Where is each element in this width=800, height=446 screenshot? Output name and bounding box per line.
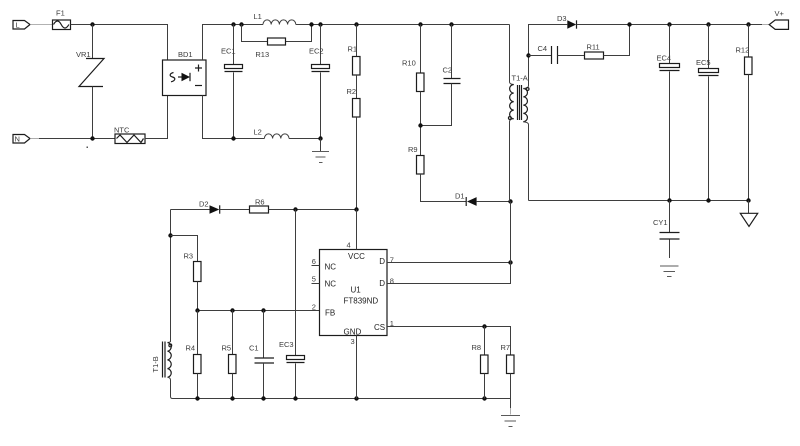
resistor R1 (348, 25, 361, 76)
svg-text:GND: GND (344, 328, 362, 337)
junction CS R8 (482, 324, 486, 328)
junction EC1 bottom (231, 136, 235, 140)
svg-text:VCC: VCC (348, 252, 365, 261)
pin 2 FB (312, 303, 316, 312)
wire R11 to out rail (604, 25, 630, 56)
resistor R12 (736, 25, 753, 201)
wire NTC to BD1 bottom (145, 96, 168, 139)
svg-text:R2: R2 (347, 87, 357, 96)
transformer T1-A (508, 25, 529, 202)
svg-text:BD1: BD1 (178, 50, 193, 59)
svg-text:NTC: NTC (114, 126, 130, 135)
resistor R3 (184, 252, 202, 282)
junction R9 top (418, 123, 422, 127)
capacitor EC3 (279, 210, 305, 399)
svg-text:L: L (16, 21, 20, 30)
junction snubber right (627, 22, 631, 26)
ground controller (501, 416, 520, 427)
svg-text:7: 7 (390, 256, 394, 265)
varistor VR1 (76, 25, 104, 139)
svg-text:N: N (15, 135, 20, 144)
junction CY1 top (667, 198, 671, 202)
svg-text:R13: R13 (255, 50, 269, 59)
svg-text:EC2: EC2 (309, 47, 324, 56)
resistor R6 (250, 198, 269, 214)
junction rail R5 (230, 396, 234, 400)
svg-text:R11: R11 (587, 43, 600, 52)
junction EC5 top (706, 22, 710, 26)
wire BD1 minus rail (203, 96, 265, 139)
junction R12 top (746, 22, 750, 26)
wire out rail (577, 24, 763, 26)
junction FB R4 (195, 308, 199, 312)
svg-text:4: 4 (347, 241, 351, 250)
wire branch to R3 (171, 236, 198, 262)
wire L1 right along top rail (296, 24, 510, 26)
junction EC1 top (231, 22, 235, 26)
junction R13 left (239, 22, 243, 26)
wire R6 to VCC pin (269, 209, 357, 211)
capacitor C2 (421, 25, 461, 126)
diode D1 (455, 192, 511, 207)
junction R10 top (418, 22, 422, 26)
wire N to NTC (39, 138, 115, 140)
svg-text:R5: R5 (222, 344, 232, 353)
pin 1 CS wire (387, 319, 511, 355)
svg-text:6: 6 (312, 257, 316, 266)
wire R10 to R9 (420, 92, 422, 156)
thermistor NTC (114, 126, 145, 144)
resistor R7 (501, 343, 515, 415)
svg-text:C4: C4 (538, 44, 548, 53)
capacitor EC2 (309, 25, 330, 139)
wire out ground rail (529, 200, 749, 202)
junction VR1 bottom (90, 136, 94, 140)
svg-text:C1: C1 (249, 344, 259, 353)
svg-text:FT839ND: FT839ND (344, 297, 379, 306)
wire N lead (30, 138, 39, 140)
junction FB C1 (261, 308, 265, 312)
junction R12 bottom (746, 198, 750, 202)
svg-text:R1: R1 (348, 45, 358, 54)
svg-text:R7: R7 (501, 343, 511, 352)
svg-text:EC5: EC5 (696, 58, 711, 67)
capacitor C4 (529, 44, 558, 64)
svg-text:D3: D3 (557, 14, 567, 23)
svg-text:T1-B: T1-B (151, 356, 160, 372)
junction D1 drain node (508, 199, 512, 203)
svg-text:CS: CS (374, 323, 385, 332)
svg-text:V+: V+ (775, 9, 785, 18)
pin 8 D wire (387, 263, 511, 286)
svg-text:R4: R4 (186, 344, 196, 353)
wire FB line (198, 310, 320, 312)
inductor L2 (254, 128, 290, 139)
svg-text:CY1: CY1 (653, 218, 668, 227)
svg-text:R8: R8 (472, 343, 482, 352)
pin 5 NC (312, 275, 320, 284)
fuse F1 (53, 9, 71, 30)
wire VCC node line (171, 209, 210, 211)
svg-text:F1: F1 (56, 9, 65, 18)
resistor R5 (222, 311, 237, 399)
svg-text:3: 3 (351, 337, 355, 346)
junction rail R4 (195, 396, 199, 400)
svg-text:D1: D1 (455, 192, 465, 201)
wire aux left column (170, 210, 172, 342)
resistor R8 (472, 327, 489, 399)
stray dot mark (87, 147, 89, 149)
junction rail R8 (482, 396, 486, 400)
diode D2 (199, 200, 220, 214)
junction EC4 top (667, 22, 671, 26)
svg-text:R6: R6 (255, 198, 265, 207)
junction snubber left (526, 53, 530, 57)
terminal V+ (769, 9, 788, 29)
resistor R13 bypass (242, 25, 312, 60)
pin 3 GND wire (351, 336, 357, 399)
inductor L1 (254, 12, 296, 25)
junction EC3 top (293, 207, 297, 211)
svg-text:L2: L2 (254, 128, 262, 137)
svg-text:R3: R3 (184, 252, 194, 261)
svg-text:1: 1 (390, 319, 394, 328)
pin 4 VCC (347, 210, 357, 250)
svg-text:VR1: VR1 (76, 50, 91, 59)
bridge rectifier BD1 (163, 50, 207, 96)
junction R13 right (309, 22, 313, 26)
wire drain column (510, 202, 512, 263)
junction EC2 bottom (318, 136, 322, 140)
junction VR1 top (90, 22, 94, 26)
ground output triangle (740, 201, 757, 227)
junction rail C1 (261, 396, 265, 400)
ground primary DC (312, 139, 329, 163)
wire bottom rail (171, 397, 511, 399)
junction R1 top (354, 22, 358, 26)
svg-text:U1: U1 (351, 286, 362, 295)
resistor R2 (347, 87, 361, 117)
wire R9 to D1 (421, 174, 467, 202)
terminal L (13, 21, 30, 30)
wire R2 to VCC node (356, 117, 358, 210)
svg-text:D2: D2 (199, 200, 209, 209)
resistor R9 (408, 145, 424, 174)
svg-text:L1: L1 (254, 12, 262, 21)
svg-text:R9: R9 (408, 145, 418, 154)
junction EC2 top (318, 22, 322, 26)
ground CY1 (660, 266, 679, 277)
svg-text:T1-A: T1-A (512, 74, 528, 83)
svg-text:NC: NC (325, 280, 337, 289)
wire R3 to FB line (197, 282, 199, 311)
junction drain pin7 (508, 260, 512, 264)
junction R3 branch (168, 233, 172, 237)
capacitor C1 (249, 311, 274, 399)
junction FB R5 (230, 308, 234, 312)
pin 6 NC (312, 257, 320, 266)
resistor R11 (585, 43, 604, 60)
wire L2 to EC2 bottom (289, 138, 321, 140)
svg-text:D: D (379, 257, 385, 266)
svg-text:R10: R10 (402, 59, 416, 68)
resistor R10 (402, 25, 424, 92)
junction rail GND pin (354, 396, 358, 400)
svg-text:D: D (379, 279, 385, 288)
wire D2 to R6 (220, 209, 250, 211)
svg-text:FB: FB (325, 308, 335, 317)
capacitor CY1 (653, 201, 680, 259)
svg-text:C2: C2 (443, 66, 453, 75)
terminal N (13, 135, 30, 144)
svg-text:EC1: EC1 (221, 47, 236, 56)
junction C2 top (449, 22, 453, 26)
diode D3 (557, 14, 577, 29)
wire BD1 plus to top rail (203, 25, 264, 61)
transformer T1-B (151, 342, 172, 397)
capacitor EC5 (696, 25, 719, 201)
wire secondary top to out rail (529, 25, 568, 56)
pin 7 D wire (387, 256, 511, 265)
junction rail EC3 (293, 396, 297, 400)
svg-text:R12: R12 (736, 46, 750, 55)
junction EC5 bottom (706, 198, 710, 202)
svg-text:8: 8 (390, 277, 394, 286)
capacitor EC4 (657, 25, 680, 201)
wire C4 to R11 (558, 55, 585, 57)
resistor R4 (186, 311, 202, 399)
svg-text:EC4: EC4 (657, 54, 672, 63)
svg-text:5: 5 (312, 275, 316, 284)
wire L to F1 (30, 24, 52, 26)
wire R1 to R2 (356, 75, 358, 99)
capacitor EC1 (221, 25, 243, 139)
svg-text:2: 2 (312, 303, 316, 312)
junction VCC node (354, 207, 358, 211)
wire V+ lead (762, 24, 769, 26)
op-amp U1 FT839ND (320, 250, 388, 337)
svg-text:EC3: EC3 (279, 340, 294, 349)
wire F1 to BD1 top (71, 25, 168, 61)
svg-text:NC: NC (325, 263, 337, 272)
